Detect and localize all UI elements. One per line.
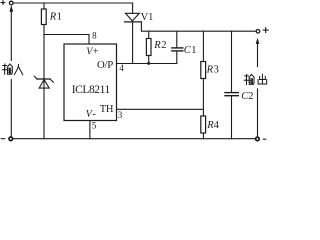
node - terminal bottom-left — [1, 138, 5, 140]
wire pin 5 — [89, 121, 91, 139]
svg-text:ICL8211: ICL8211 — [72, 84, 111, 96]
svg-text:O/P: O/P — [97, 59, 113, 71]
resistor R3 — [202, 31, 204, 61]
svg-text:2: 2 — [161, 40, 166, 51]
op-amp U1 ICL8211 box — [64, 44, 117, 121]
wire bottom rail — [13, 138, 256, 140]
svg-text:1: 1 — [57, 12, 62, 23]
zener diode VS — [34, 76, 53, 88]
capacitor C1 — [176, 31, 178, 47]
svg-text:-: - — [92, 109, 95, 120]
svg-text:4: 4 — [119, 63, 124, 73]
wire pin 4 O/P — [117, 63, 177, 65]
resistor R2 — [148, 31, 150, 38]
svg-text:V1: V1 — [141, 12, 154, 23]
出 char — [258, 74, 267, 84]
node 输出 output label — [244, 74, 267, 84]
svg-text:R: R — [49, 12, 57, 23]
resistor R1 — [43, 3, 45, 9]
node 输入 input label — [2, 64, 22, 75]
node + terminal top-right — [256, 30, 260, 34]
svg-text:1: 1 — [191, 45, 196, 56]
wire top rail — [13, 2, 132, 4]
svg-text:5: 5 — [92, 121, 97, 131]
wire pin8 branch — [44, 35, 89, 45]
svg-text:R: R — [153, 40, 161, 51]
diode V1 — [132, 3, 134, 13]
svg-text:+: + — [93, 46, 99, 57]
node - terminal bottom-right — [256, 137, 260, 141]
svg-text:4: 4 — [214, 120, 220, 131]
svg-text:TH: TH — [100, 104, 114, 115]
svg-text:8: 8 — [92, 30, 97, 40]
node input arrow — [9, 5, 13, 12]
node junction dot — [147, 62, 150, 65]
capacitor C2 — [231, 31, 233, 92]
svg-text:3: 3 — [214, 65, 219, 76]
svg-text:2: 2 — [248, 91, 253, 102]
svg-text:R: R — [206, 65, 214, 76]
输 char — [244, 74, 249, 84]
node output arrow — [256, 38, 260, 44]
wire output rail — [141, 22, 256, 31]
node + terminal top-left — [1, 1, 5, 5]
wire pin 3 TH — [117, 108, 204, 110]
输 char — [2, 64, 7, 74]
svg-text:3: 3 — [118, 110, 123, 120]
resistor R4 — [201, 116, 206, 133]
入 char — [14, 64, 22, 74]
